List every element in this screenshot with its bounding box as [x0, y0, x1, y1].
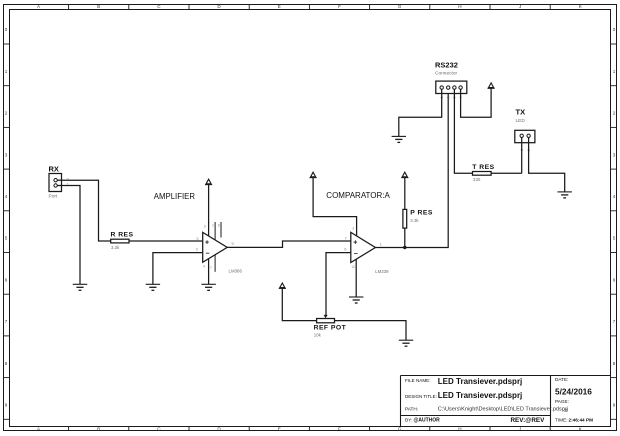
svg-text:E: E	[278, 427, 281, 432]
svg-text:3: 3	[5, 152, 8, 157]
ground (REF POT)	[399, 340, 413, 346]
svg-text:3.3k: 3.3k	[111, 245, 120, 250]
svg-text:LM386: LM386	[229, 268, 243, 273]
ground (amplifier pin4)	[201, 284, 215, 290]
svg-text:Port: Port	[49, 194, 58, 200]
svg-text:C:\Users\Knight\Desktop\LED\LE: C:\Users\Knight\Desktop\LED\LED Transiev…	[438, 406, 568, 412]
connector RS232	[435, 60, 467, 98]
wire P RES to output junction	[404, 228, 406, 247]
svg-text:10k: 10k	[314, 333, 322, 338]
svg-text:LED Transiever.pdsprj: LED Transiever.pdsprj	[438, 391, 522, 400]
svg-text:@AUTHOR: @AUTHOR	[414, 418, 441, 424]
wire TX pin2 to ground	[529, 138, 565, 192]
svg-text:5: 5	[5, 236, 8, 241]
svg-text:J: J	[519, 4, 521, 9]
svg-text:LED Transiever.pdsprj: LED Transiever.pdsprj	[438, 377, 522, 386]
svg-text:0: 0	[613, 27, 616, 32]
resistor P RES 3.3k	[403, 209, 433, 228]
svg-text:9: 9	[613, 403, 616, 408]
svg-text:LM339: LM339	[375, 269, 389, 274]
svg-text:DESIGN TITLE:: DESIGN TITLE:	[405, 394, 437, 399]
svg-text:7: 7	[210, 266, 212, 270]
svg-text:1: 1	[212, 224, 214, 228]
svg-text:4: 4	[5, 194, 8, 199]
svg-text:FILE NAME:: FILE NAME:	[405, 378, 431, 383]
wire RS232 pin1 to ground	[399, 89, 442, 136]
wire power to comparator pin3	[313, 178, 357, 236]
power +V (P RES)	[401, 172, 408, 177]
svg-text:6: 6	[204, 225, 206, 229]
wire amplifier -input to ground	[153, 253, 203, 285]
op-amp U1 LM386 (AMPLIFIER)	[196, 222, 243, 273]
svg-text:PAGE:: PAGE:	[555, 399, 569, 404]
svg-text:F: F	[338, 4, 341, 9]
ground (RX pin1)	[73, 284, 87, 290]
ground (amplifier -input)	[146, 284, 160, 290]
svg-text:TX: TX	[516, 107, 526, 116]
power +V (amplifier)	[205, 179, 212, 184]
svg-text:330: 330	[473, 177, 481, 182]
svg-text:8: 8	[5, 361, 8, 366]
svg-text:3.3k: 3.3k	[410, 218, 419, 223]
svg-text:REV:@REV: REV:@REV	[511, 417, 546, 424]
ground (TX pin2)	[558, 192, 572, 198]
svg-text:F: F	[338, 427, 341, 432]
wire comparator pin12 to ground	[355, 260, 357, 298]
svg-text:6: 6	[5, 277, 8, 282]
svg-text:DATE:: DATE:	[555, 377, 568, 382]
svg-text:3: 3	[613, 152, 616, 157]
wire T RES to TX pin1	[491, 172, 522, 174]
svg-text:P RES: P RES	[410, 210, 433, 217]
svg-text:6: 6	[613, 277, 616, 282]
svg-text:5/24/2016: 5/24/2016	[555, 387, 592, 397]
svg-text:2: 2	[5, 111, 8, 116]
svg-text:0: 0	[5, 27, 8, 32]
potentiometer REF POT 10k	[314, 315, 347, 338]
wire power to amplifier pin6/pin4 to ground	[208, 185, 210, 285]
svg-text:J: J	[519, 427, 521, 432]
wire RX pin2 to R RES	[62, 180, 111, 241]
wire TX pin1 down	[521, 138, 523, 174]
power +V (comparator)	[310, 172, 317, 177]
wire R RES to amplifier +input	[129, 240, 203, 242]
connector TX (LED)	[515, 107, 535, 151]
power +V (REF POT)	[279, 283, 286, 288]
svg-text:−: −	[205, 251, 209, 258]
wire comparator -input to REF POT wiper	[326, 253, 351, 316]
power +V (RS232 pin4)	[488, 83, 495, 88]
svg-text:B: B	[97, 4, 100, 9]
comparator U2 LM339 (COMPARATOR:A)	[344, 226, 389, 273]
svg-text:7: 7	[5, 319, 8, 324]
svg-text:3: 3	[352, 226, 354, 230]
wire power to P RES	[404, 178, 406, 210]
wire RS232 pin3 to T RES	[454, 89, 472, 173]
svg-text:2: 2	[613, 111, 616, 116]
svg-text:5: 5	[613, 236, 616, 241]
svg-text:−: −	[354, 251, 358, 258]
wire REF POT right to ground	[335, 321, 407, 341]
svg-text:PATH:: PATH:	[405, 406, 418, 411]
svg-text:AMPLIFIER: AMPLIFIER	[154, 192, 196, 201]
svg-text:2:46:44 PM: 2:46:44 PM	[569, 418, 594, 423]
svg-text:REF POT: REF POT	[314, 324, 347, 331]
svg-text:R RES: R RES	[111, 231, 134, 238]
svg-text:1: 1	[5, 69, 8, 74]
junction (output / P RES)	[403, 246, 406, 249]
svg-text:8: 8	[218, 224, 220, 228]
svg-text:8: 8	[613, 361, 616, 366]
svg-text:+: +	[205, 239, 209, 246]
svg-text:RS232: RS232	[435, 60, 458, 69]
wire power to REF POT left	[282, 288, 316, 320]
svg-text:BY:: BY:	[405, 418, 412, 423]
svg-text:E: E	[278, 4, 281, 9]
ground (RS232 pin1)	[392, 136, 406, 142]
connector RX (Port)	[49, 165, 70, 200]
svg-text:+: +	[353, 239, 357, 246]
resistor R RES 3.3k	[111, 231, 134, 250]
svg-text:T RES: T RES	[472, 164, 494, 171]
svg-text:4: 4	[613, 194, 616, 199]
svg-text:Connector: Connector	[435, 71, 458, 77]
wire RS232 pin4 to power	[461, 88, 492, 117]
svg-text:G: G	[398, 4, 402, 9]
svg-text:G: G	[398, 427, 402, 432]
svg-text:H: H	[458, 427, 461, 432]
svg-text:9: 9	[5, 403, 8, 408]
svg-text:LED: LED	[516, 118, 526, 124]
svg-text:2: 2	[446, 97, 450, 99]
svg-text:1: 1	[613, 69, 616, 74]
wire amplifier output to comparator +input	[227, 241, 351, 247]
svg-text:7: 7	[613, 319, 616, 324]
svg-text:RX: RX	[49, 165, 59, 174]
ground (comparator pin12)	[349, 297, 363, 303]
svg-text:COMPARATOR:A: COMPARATOR:A	[326, 191, 390, 200]
svg-text:TIME:: TIME:	[555, 418, 568, 423]
title block	[401, 376, 612, 428]
svg-text:4: 4	[203, 265, 205, 269]
wire RX pin1 to ground	[62, 186, 81, 285]
svg-text:12: 12	[351, 265, 355, 269]
svg-text:B: B	[97, 427, 100, 432]
resistor T RES 330	[472, 164, 494, 182]
wire comparator output to RS232 pin2	[375, 89, 448, 247]
svg-text:H: H	[458, 4, 461, 9]
